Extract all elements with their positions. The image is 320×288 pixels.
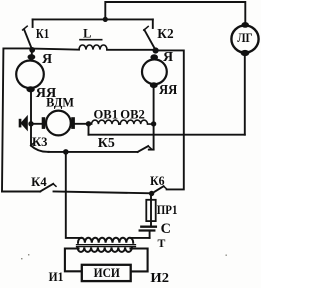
inductor L	[32, 45, 154, 50]
node G (K6 / fuse junction)	[149, 191, 154, 196]
wire F down to transformer primary	[66, 152, 82, 238]
svg-text:К1: К1	[36, 26, 49, 41]
svg-text:К5: К5	[98, 135, 115, 150]
wire left branch vertical	[30, 90, 32, 146]
svg-text:L: L	[83, 27, 91, 41]
svg-text:ОВ1: ОВ1	[94, 106, 119, 121]
node C (OV2 right junction)	[151, 121, 156, 126]
node A (K1 / rail / L junction)	[29, 47, 35, 53]
box ISI	[82, 265, 131, 281]
svg-text:ПР1: ПР1	[157, 202, 178, 217]
svg-text:ЯЯ: ЯЯ	[159, 82, 177, 97]
node E (OV1 left junction)	[86, 121, 91, 126]
motor M2 armature (right)	[142, 54, 167, 88]
node junction top bus	[103, 17, 108, 22]
field winding OV2	[119, 120, 154, 124]
scan specks	[21, 254, 227, 259]
wire right rail	[244, 53, 246, 135]
wire top horizontal	[105, 2, 245, 25]
switch K2	[144, 19, 156, 50]
svg-text:ВДМ: ВДМ	[46, 95, 74, 109]
svg-text:ОВ2: ОВ2	[120, 106, 145, 121]
wire K3/K5 row	[49, 151, 138, 153]
svg-text:К4: К4	[31, 175, 47, 189]
fuse PR1	[146, 194, 155, 227]
wire long horizontal to right rail (with crossover gaps)	[89, 134, 245, 136]
svg-text:Я: Я	[42, 52, 52, 67]
svg-text:ЛГ: ЛГ	[237, 30, 253, 45]
motor M1 armature (left)	[16, 50, 44, 93]
plug arrow symbol	[19, 115, 28, 131]
transformer T primary	[78, 238, 133, 243]
generator LG	[231, 22, 258, 56]
svg-text:И1: И1	[49, 269, 64, 284]
switch K4	[2, 184, 152, 194]
switch K5	[138, 146, 154, 152]
wire secondary right to box	[131, 249, 148, 272]
svg-text:К2: К2	[157, 26, 173, 41]
svg-text:С: С	[161, 221, 171, 237]
switch K6	[152, 186, 167, 193]
wire K2 to right branch	[156, 50, 184, 189]
node B (K2 junction)	[153, 47, 159, 53]
switch K1	[23, 19, 33, 50]
wire secondary left to box	[65, 249, 82, 272]
capacitor C	[140, 227, 156, 238]
transformer core	[77, 245, 136, 247]
wire cap to transformer primary right	[131, 237, 150, 239]
svg-text:Т: Т	[158, 236, 166, 250]
svg-text:К3: К3	[32, 135, 48, 149]
exciter VDM	[31, 111, 89, 136]
field winding OV1	[89, 120, 119, 124]
svg-text:ИСИ: ИСИ	[94, 266, 120, 280]
transformer T secondary	[78, 247, 132, 251]
wire left rail	[2, 48, 32, 191]
svg-text:Я: Я	[163, 50, 173, 65]
svg-text:И2: И2	[150, 270, 169, 285]
switch K3	[31, 142, 49, 151]
wire E down to long horizontal	[88, 124, 90, 135]
wire upper bus	[33, 18, 153, 20]
node D (VDM left junction)	[28, 121, 33, 126]
svg-text:К6: К6	[150, 174, 165, 188]
wire M2 down to OV2 node and K5	[153, 85, 155, 149]
node F (K3 row junction)	[63, 149, 69, 155]
